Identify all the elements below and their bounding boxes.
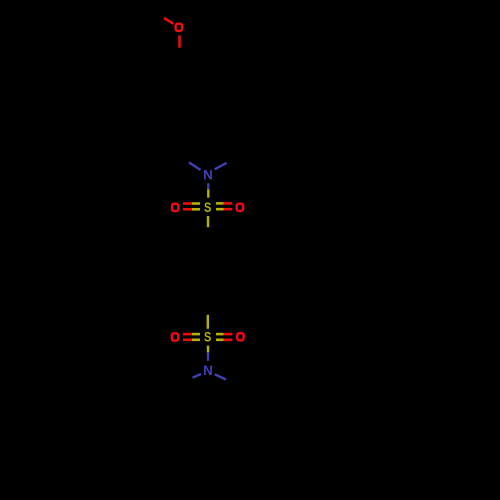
svg-text:N: N — [203, 167, 213, 182]
double bond S2=O4 upper line (red+yellow halves) — [183, 333, 192, 336]
bond C benzene bottom-S2 (yellow half) — [207, 315, 209, 329]
bond C-N1 upper-right (blue half) — [215, 163, 227, 169]
bond N2-C lower-right (blue half) — [215, 374, 226, 379]
double bond S2=O5 upper line (yellow+red halves) — [216, 333, 224, 336]
atom O5 (sulfonyl 2 right oxygen) — [237, 333, 243, 340]
svg-text:S: S — [204, 330, 211, 345]
bond O1-C aryl (red half) — [178, 35, 181, 47]
bond CH3-O (red half, methoxy) — [164, 18, 173, 24]
bond S1-C benzene top (yellow half) — [207, 216, 209, 227]
atom O2 (sulfonyl 1 left oxygen) — [172, 204, 178, 211]
bond N1-S1 (blue half) — [207, 183, 209, 189]
svg-text:N: N — [203, 363, 213, 378]
svg-text:S: S — [204, 200, 211, 215]
bond S2-N2 (blue half) — [207, 352, 209, 360]
bond N2-C lower-left (blue half) — [193, 374, 201, 378]
atom O3 (sulfonyl 1 right oxygen) — [237, 204, 243, 211]
atom O4 (sulfonyl 2 left oxygen) — [172, 333, 178, 340]
bond C-N1 upper-left (blue half) — [189, 162, 201, 170]
double bond S2=O5 lower line (yellow+red halves) — [216, 338, 224, 341]
bond N1-S1 (yellow half) — [207, 190, 209, 198]
atom O1 (methoxy oxygen) — [176, 24, 182, 31]
double bond S1=O2 upper line (red+yellow halves) — [183, 202, 192, 205]
double bond S1=O3 lower line (yellow+red halves) — [216, 208, 224, 211]
double bond S2=O4 lower line (red+yellow halves) — [183, 338, 192, 341]
double bond S1=O2 lower line (red+yellow halves) — [183, 208, 192, 211]
bond S2-N2 (yellow half) — [207, 346, 209, 353]
double bond S1=O3 upper line (yellow+red halves) — [216, 202, 224, 205]
